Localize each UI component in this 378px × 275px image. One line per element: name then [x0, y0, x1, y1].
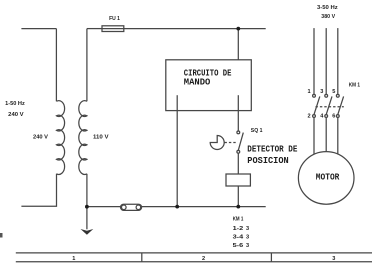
coil KM1 — [226, 174, 250, 186]
wire primary bottom — [21, 174, 56, 207]
svg-text:3: 3 — [246, 226, 249, 232]
svg-text:KM 1: KM 1 — [349, 83, 360, 89]
contactor KM1 pole 2 blade — [326, 96, 332, 114]
fuse FU1 — [102, 26, 124, 32]
wire pole3 to motor — [337, 117, 339, 154]
svg-text:MOTOR: MOTOR — [316, 171, 340, 182]
link terminal component — [121, 204, 142, 210]
svg-text:SQ 1: SQ 1 — [251, 128, 263, 134]
svg-text:3: 3 — [320, 89, 323, 95]
three phase line L2 — [325, 28, 327, 94]
node top bus junction — [236, 27, 240, 31]
scan artifact left edge — [0, 233, 3, 238]
svg-text:110 V: 110 V — [93, 134, 109, 140]
three phase line L1 — [313, 28, 315, 94]
switch SQ1 blade — [238, 133, 243, 151]
bottom bus wire — [87, 206, 266, 208]
svg-text:2: 2 — [202, 256, 205, 262]
bar divider 2 — [270, 253, 272, 262]
svg-text:DETECTOR DE: DETECTOR DE — [247, 143, 297, 154]
wire secondary top vertical — [86, 29, 88, 102]
ground symbol — [81, 229, 94, 235]
contactor KM1 pole 2 lower contact — [325, 115, 328, 118]
wire SQ1 to coil — [237, 153, 239, 174]
node secondary bottom junction — [85, 205, 89, 209]
three phase line L3 — [337, 28, 339, 94]
contactor KM1 pole 3 blade — [338, 96, 344, 114]
wire supply L top — [21, 28, 56, 30]
svg-text:1: 1 — [72, 256, 75, 262]
svg-text:MANDO: MANDO — [184, 77, 211, 88]
svg-text:KM 1: KM 1 — [233, 217, 244, 223]
svg-text:3: 3 — [332, 256, 335, 262]
svg-text:6: 6 — [332, 113, 335, 119]
contactor KM1 pole 3 lower contact — [336, 115, 339, 118]
wire pole1 to motor — [313, 117, 315, 154]
svg-text:240 V: 240 V — [8, 112, 24, 118]
node box left leg junction — [175, 205, 179, 209]
svg-text:380 V: 380 V — [321, 14, 335, 20]
wire coil to bottom bus — [237, 186, 239, 207]
contactor KM1 pole 1 upper contact — [313, 94, 316, 97]
wire pole2 to motor — [325, 117, 327, 151]
wire top bus fuse to end — [124, 28, 266, 30]
frame bottom bar bottom line — [16, 261, 372, 263]
wire primary left vertical — [55, 29, 57, 102]
wire drop to control box — [237, 29, 239, 60]
cam actuator of SQ1 — [210, 136, 224, 150]
switch SQ1 lower contact — [237, 150, 240, 153]
wire box left leg down — [176, 95, 178, 206]
svg-text:FU 1: FU 1 — [109, 16, 120, 22]
contactor KM1 pole 3 upper contact — [336, 94, 339, 97]
svg-text:3-50 Hz: 3-50 Hz — [317, 5, 338, 11]
motor M circle — [298, 152, 354, 205]
transformer T1 secondary winding 110V — [79, 101, 87, 175]
svg-text:POSICION: POSICION — [247, 155, 289, 166]
svg-text:3: 3 — [246, 235, 249, 241]
ground wire — [86, 207, 88, 230]
switch SQ1 upper contact — [237, 131, 240, 134]
svg-text:1: 1 — [308, 89, 311, 95]
svg-text:2: 2 — [308, 113, 311, 119]
svg-text:3-4: 3-4 — [233, 235, 245, 241]
svg-text:240 V: 240 V — [33, 135, 48, 141]
bar divider 1 — [141, 253, 143, 262]
contactor KM1 pole 1 lower contact — [313, 115, 316, 118]
svg-text:3: 3 — [246, 243, 249, 249]
dashed coupling of KM1 poles — [316, 106, 344, 108]
control box CIRCUITO DE MANDO — [166, 60, 252, 111]
svg-text:5-6: 5-6 — [233, 243, 244, 249]
svg-text:5: 5 — [332, 89, 335, 95]
frame bottom bar top line — [16, 252, 372, 254]
dashed link cam to blade — [225, 142, 237, 144]
wire box right leg to SQ1 — [237, 95, 239, 131]
contactor KM1 pole 1 blade — [314, 96, 320, 114]
contactor KM1 pole 2 upper contact — [325, 94, 328, 97]
transformer T1 primary winding 240V — [57, 101, 65, 175]
wire secondary bottom — [86, 174, 88, 207]
svg-text:1-2: 1-2 — [233, 226, 244, 232]
svg-text:1-50 Hz: 1-50 Hz — [5, 101, 25, 107]
node coil bottom junction — [236, 205, 240, 209]
wire top bus to fuse — [87, 28, 102, 30]
